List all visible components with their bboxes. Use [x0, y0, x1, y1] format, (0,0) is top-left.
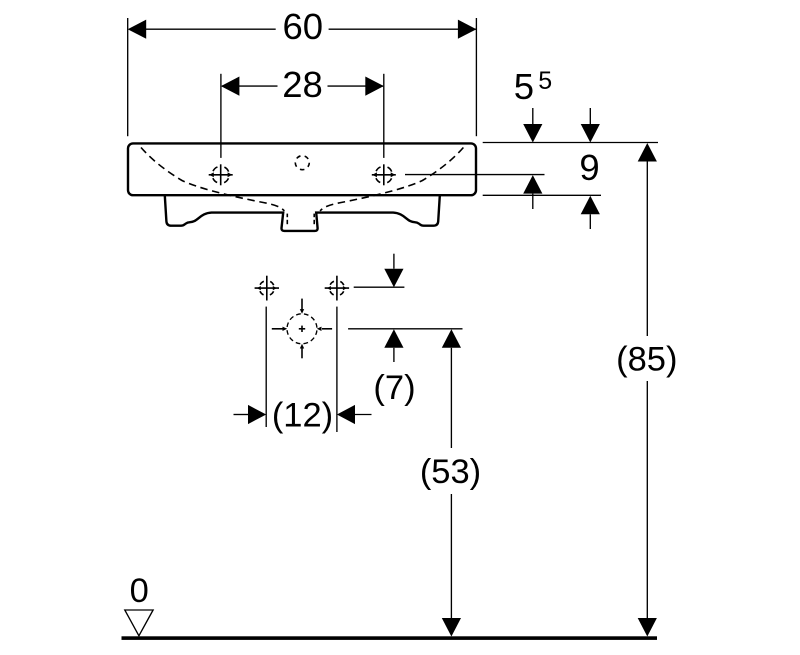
dimension 5.5: [514, 66, 552, 209]
basin bowl hidden contour left: [141, 148, 284, 211]
svg-text:(85): (85): [616, 341, 677, 379]
svg-text:28: 28: [282, 64, 323, 105]
fixing hole extension line left: [265, 307, 267, 427]
extension line tap axis right: [405, 174, 545, 176]
svg-text:60: 60: [282, 6, 323, 47]
basin bowl hidden contour right: [320, 148, 463, 211]
drain circle: [272, 299, 332, 359]
basin outline: [128, 143, 476, 195]
pedestal and drain outline: [165, 196, 440, 231]
dimension 9: [579, 108, 600, 229]
extension line top edge right: [483, 142, 658, 144]
overflow hole dashed circle: [295, 156, 309, 170]
datum triangle: [125, 610, 153, 636]
svg-text:(53): (53): [420, 453, 481, 491]
dimension (53): [420, 329, 481, 636]
svg-text:0: 0: [130, 572, 149, 610]
fixing hole right: [325, 276, 349, 301]
extension line bottom edge right: [483, 194, 601, 196]
floor line: [122, 636, 658, 640]
fixing hole left: [255, 276, 279, 301]
dimension 60: [128, 6, 477, 136]
siphon hidden dashes right: [313, 214, 315, 225]
dimension (7): [373, 254, 415, 407]
dimension (85): [616, 143, 677, 637]
fixing hole extension line right: [336, 307, 338, 432]
tap hole left: [209, 164, 233, 185]
dimension (12): [234, 397, 372, 435]
svg-text:(7): (7): [373, 369, 415, 407]
fixing hole axis line right: [354, 286, 405, 288]
dimension 28: [221, 64, 384, 158]
svg-text:9: 9: [579, 147, 599, 188]
siphon hidden dashes left: [286, 214, 288, 225]
svg-text:5: 5: [514, 66, 534, 107]
svg-text:5: 5: [538, 67, 552, 95]
svg-text:(12): (12): [272, 397, 333, 435]
tap hole right: [372, 164, 396, 185]
drain axis line right: [348, 328, 462, 330]
